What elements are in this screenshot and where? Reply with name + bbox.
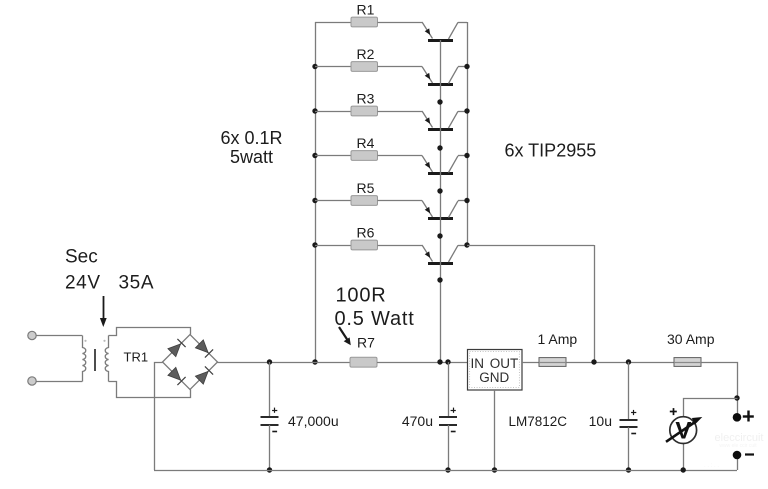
- junction collector Q5: [464, 198, 469, 203]
- wire common base rail: [440, 40, 442, 362]
- wire 0V bottom rail: [154, 470, 737, 472]
- junction left rail row 2: [312, 64, 317, 69]
- wire bridge positive to R7: [218, 362, 352, 364]
- svg-text:IN: IN: [470, 356, 484, 371]
- wire secondary bottom to bridge: [109, 382, 191, 398]
- resistor R2: [351, 62, 378, 72]
- svg-text:470u: 470u: [402, 413, 433, 429]
- wire resistor R5 to transistor Q5: [378, 200, 423, 202]
- arrow to transformer secondary: [103, 296, 105, 319]
- junction base rail: [437, 277, 442, 282]
- svg-text:R6: R6: [357, 225, 375, 241]
- wire to resistor R4: [315, 155, 351, 157]
- svg-text:6x 0.1R: 6x 0.1R: [220, 128, 282, 148]
- regulator U1 LM7812C: [468, 350, 523, 391]
- wire to negative terminal: [737, 457, 739, 470]
- svg-text:. . : . .: . . : . .: [704, 463, 719, 469]
- voltmeter plus mark: [670, 408, 677, 415]
- junction C3 top: [626, 359, 631, 364]
- junction C1 top: [267, 359, 272, 364]
- resistor R1: [351, 17, 378, 27]
- diode D3: [168, 367, 186, 385]
- transistor Q2 TIP2955: [422, 67, 467, 85]
- svg-text:5watt: 5watt: [230, 147, 273, 167]
- transistor Q3 TIP2955: [422, 111, 467, 130]
- wire R7 to regulator input: [377, 362, 467, 364]
- wire resistor R2 to transistor Q2: [378, 66, 423, 68]
- wire resistor R6 to transistor Q6: [378, 245, 423, 247]
- wire regulator GND pin: [494, 390, 496, 470]
- wire voltmeter top branch: [684, 399, 738, 417]
- transistor Q4 TIP2955: [422, 156, 467, 174]
- junction base rail to main rail: [437, 359, 442, 364]
- transistor Q1 TIP2955: [422, 22, 467, 41]
- wire to resistor R3: [315, 111, 351, 113]
- resistor R7: [350, 357, 377, 367]
- junction base rail: [437, 99, 442, 104]
- output terminal positive: [733, 413, 742, 422]
- svg-text:Sec: Sec: [65, 247, 98, 268]
- junction collector Q4: [464, 153, 469, 158]
- svg-text:R7: R7: [357, 335, 375, 351]
- junction voltmeter bottom: [681, 467, 686, 472]
- junction voltmeter tap: [734, 395, 739, 400]
- voltmeter M1: [666, 417, 702, 445]
- svg-text:10u: 10u: [589, 413, 612, 429]
- wire left emitter rail: [315, 22, 317, 362]
- watermark: [704, 432, 763, 469]
- label plus: [743, 411, 754, 422]
- diode D1: [168, 339, 186, 357]
- transformer TR1 core: [94, 349, 96, 371]
- junction C2 top: [445, 359, 450, 364]
- svg-text:LM7812C: LM7812C: [509, 414, 568, 429]
- wire common collector rail: [467, 22, 469, 245]
- junction left rail to main rail: [312, 359, 317, 364]
- resistor R4: [351, 151, 378, 161]
- junction collector Q6: [464, 242, 469, 247]
- wire to resistor R5: [315, 200, 351, 202]
- wire resistor R3 to transistor Q3: [378, 111, 423, 113]
- wire input bottom: [36, 381, 82, 383]
- svg-text:OUT: OUT: [490, 356, 519, 371]
- junction left rail row 3: [312, 108, 317, 113]
- wire bridge negative to 0V rail: [155, 363, 163, 471]
- junction collector Q3: [464, 108, 469, 113]
- fuse F1 1 Amp: [539, 358, 566, 367]
- wire secondary top to bridge: [109, 328, 191, 336]
- resistor R5: [351, 196, 378, 206]
- svg-text:www ele ccir cuit: www ele ccir cuit: [719, 443, 757, 449]
- capacitor C1 47,000u: [261, 362, 279, 470]
- svg-text:R3: R3: [357, 91, 375, 107]
- wire voltmeter bottom: [683, 443, 685, 470]
- junction regulator GND: [492, 467, 497, 472]
- wire to resistor R1: [315, 22, 351, 24]
- wire resistor R4 to transistor Q4: [378, 155, 423, 157]
- junction C2 bottom: [445, 467, 450, 472]
- junction left rail row 6: [312, 242, 317, 247]
- capacitor C2 470u: [439, 362, 457, 470]
- svg-text:6x TIP2955: 6x TIP2955: [505, 141, 597, 161]
- svg-text:R4: R4: [357, 135, 375, 151]
- output terminal negative: [733, 451, 742, 460]
- transistor Q5 TIP2955: [422, 201, 467, 219]
- wire to resistor R6: [315, 245, 351, 247]
- svg-text:R5: R5: [357, 180, 375, 196]
- resistor R6: [351, 240, 378, 250]
- wire fuse F2 to positive terminal: [701, 363, 738, 415]
- capacitor C3 10u: [620, 362, 638, 470]
- junction C1 bottom: [267, 467, 272, 472]
- wire input top: [36, 335, 82, 337]
- bridge rectifier frame: [163, 335, 218, 390]
- svg-text:GND: GND: [479, 370, 509, 385]
- junction left rail row 4: [312, 153, 317, 158]
- diode D2: [195, 340, 213, 358]
- transformer TR1 secondary winding: [105, 336, 108, 382]
- junction base rail: [437, 233, 442, 238]
- input terminal top: [28, 331, 36, 339]
- resistor R3: [351, 106, 378, 116]
- wire regulator out: [522, 362, 539, 364]
- svg-text:0.5 Watt: 0.5 Watt: [335, 308, 415, 330]
- junction base rail: [437, 188, 442, 193]
- diode D4: [195, 366, 213, 384]
- junction base rail: [437, 145, 442, 150]
- junction C3 bottom: [626, 467, 631, 472]
- svg-text:47,000u: 47,000u: [288, 413, 339, 429]
- wire to resistor R2: [315, 66, 351, 68]
- junction left rail row 5: [312, 198, 317, 203]
- junction collector Q2: [464, 64, 469, 69]
- arrow to R7: [339, 327, 348, 340]
- label minus: [745, 453, 754, 455]
- svg-text:R2: R2: [357, 46, 375, 62]
- wire collector rail to regulator output node: [467, 245, 594, 247]
- transistor Q6 TIP2955: [422, 245, 467, 264]
- transformer phase dots: [84, 340, 86, 342]
- junction collector return: [591, 359, 596, 364]
- wire resistor R1 to transistor Q1: [378, 22, 423, 24]
- svg-text:30 Amp: 30 Amp: [667, 331, 715, 347]
- input terminal bottom: [28, 377, 36, 385]
- fuse F2 30 Amp: [674, 358, 701, 367]
- transformer TR1 primary winding: [83, 336, 86, 382]
- svg-text:1 Amp: 1 Amp: [538, 331, 578, 347]
- svg-text:TR1: TR1: [124, 349, 149, 364]
- svg-text:R1: R1: [357, 2, 375, 18]
- wire fuse F1 to output node: [566, 362, 674, 364]
- svg-text:100R: 100R: [336, 285, 387, 307]
